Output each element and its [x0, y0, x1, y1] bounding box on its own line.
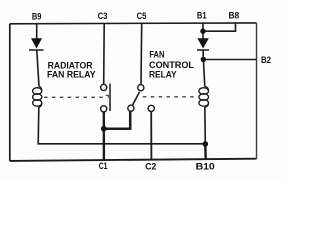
svg-text:RELAY: RELAY [149, 69, 177, 80]
svg-text:B8: B8 [229, 11, 240, 21]
svg-text:C2: C2 [145, 161, 156, 171]
svg-text:C3: C3 [98, 11, 108, 21]
svg-text:B1: B1 [197, 11, 207, 21]
svg-text:FAN RELAY: FAN RELAY [47, 69, 96, 80]
svg-text:FAN: FAN [149, 48, 164, 59]
svg-text:B2: B2 [261, 55, 271, 65]
svg-text:B9: B9 [32, 12, 41, 22]
svg-text:B10: B10 [196, 161, 215, 171]
svg-text:C5: C5 [137, 11, 147, 21]
svg-text:C1: C1 [99, 161, 108, 171]
